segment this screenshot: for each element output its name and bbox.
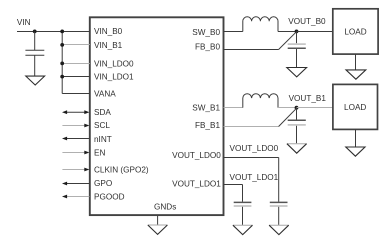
svg-text:VIN: VIN	[17, 18, 31, 27]
inductor L1	[243, 17, 278, 32]
wire VOUT_LDO1 vertical to C4	[242, 185, 244, 202]
wire nINT arrow out	[62, 137, 89, 141]
ground G4 (C3)	[287, 143, 307, 145]
svg-text:FB_B1: FB_B1	[195, 121, 220, 130]
svg-text:VIN_B1: VIN_B1	[94, 41, 123, 50]
svg-text:VOUT_LDO0: VOUT_LDO0	[230, 144, 279, 153]
ground G6 (C4)	[233, 224, 253, 226]
svg-text:VIN_LDO0: VIN_LDO0	[94, 59, 134, 68]
wire VOUT_LDO0 vertical to C5	[278, 158, 280, 202]
wire inductor L2 to node VOUT_B1	[278, 107, 297, 109]
svg-text:VOUT_B1: VOUT_B1	[289, 94, 327, 103]
svg-text:VIN_LDO1: VIN_LDO1	[94, 73, 134, 82]
svg-text:LOAD: LOAD	[344, 103, 366, 112]
svg-text:SW_B0: SW_B0	[192, 28, 220, 37]
wire CLKIN arrow in	[62, 168, 89, 172]
wire VIN_LDO0	[62, 63, 90, 65]
ground G2 (C2)	[287, 68, 307, 77]
node junction dot bus LDO0	[60, 62, 64, 66]
svg-text:VOUT_B0: VOUT_B0	[288, 17, 326, 26]
wire FB_B0	[224, 49, 279, 51]
capacitor C4 (VOUT_LDO1)	[234, 202, 252, 225]
wire EN arrow in	[62, 151, 89, 155]
wire VOUT_LDO0	[224, 157, 279, 159]
ground G1 (input cap)	[26, 76, 45, 85]
svg-text:CLKIN (GPO2): CLKIN (GPO2)	[94, 165, 149, 174]
svg-text:GPO: GPO	[94, 179, 112, 188]
svg-text:VOUT_LDO0: VOUT_LDO0	[172, 151, 221, 160]
wire VIN_B1	[62, 44, 90, 46]
ground G8 (GNDs)	[148, 224, 168, 226]
svg-text:SW_B1: SW_B1	[192, 104, 220, 113]
wire node VOUT_B1 to LOAD	[297, 107, 333, 109]
wire node VOUT_B0 to LOAD	[297, 31, 333, 33]
wire VANA	[62, 93, 90, 95]
svg-text:VOUT_LDO1: VOUT_LDO1	[230, 173, 279, 182]
svg-text:VANA: VANA	[94, 90, 116, 99]
wire FB_B0 diagonal to node	[279, 32, 297, 50]
svg-text:PGOOD: PGOOD	[94, 192, 125, 201]
svg-text:VIN_B0: VIN_B0	[94, 27, 123, 36]
ground G3 (LOAD 1)	[346, 54, 366, 79]
svg-text:SDA: SDA	[94, 108, 111, 117]
wire VIN main	[17, 31, 90, 33]
svg-text:FB_B0: FB_B0	[195, 42, 220, 51]
wire VIN bus vertical	[61, 32, 63, 94]
wire GPO arrow out	[62, 182, 89, 186]
IC U1 body	[90, 17, 224, 215]
capacitor C3 (VOUT_B1)	[288, 108, 306, 144]
capacitor C1 input	[25, 32, 44, 77]
ground G5 (LOAD 2)	[346, 129, 365, 156]
wire GNDs stub	[157, 216, 159, 225]
ground G7 (C5)	[269, 224, 289, 226]
node VOUT_B1 dot	[295, 106, 299, 110]
node junction dot VIN-cap	[33, 30, 37, 34]
wire inductor L1 to node VOUT_B0	[278, 31, 297, 33]
wire SCL arrow in	[62, 124, 89, 128]
svg-text:VOUT_LDO1: VOUT_LDO1	[172, 180, 221, 189]
svg-text:nINT: nINT	[94, 135, 112, 144]
wire VOUT_LDO1	[224, 184, 243, 186]
wire SW_B1 to inductor	[224, 107, 243, 109]
LOAD box 2	[333, 84, 378, 129]
svg-text:SCL: SCL	[94, 121, 110, 130]
node junction dot bus top	[60, 30, 64, 34]
inductor L2	[243, 94, 278, 108]
svg-text:EN: EN	[94, 148, 105, 157]
wire VIN_LDO1	[62, 76, 90, 78]
wire SW_B0 to inductor	[224, 31, 243, 33]
capacitor C5 (VOUT_LDO0)	[270, 202, 288, 225]
wire PGOOD arrow out	[62, 195, 89, 199]
wire FB_B1	[224, 126, 279, 128]
node junction dot bus B1	[60, 43, 64, 47]
node VOUT_B0 dot	[295, 30, 299, 34]
node junction dot bus LDO1	[60, 75, 64, 79]
LOAD box 1	[333, 9, 378, 54]
wire FB_B1 diagonal to node	[279, 108, 297, 126]
wire SDA bidirectional arrow	[62, 110, 89, 114]
svg-text:LOAD: LOAD	[344, 27, 366, 36]
svg-text:GNDs: GNDs	[154, 202, 176, 211]
capacitor C2 (VOUT_B0)	[288, 32, 306, 68]
